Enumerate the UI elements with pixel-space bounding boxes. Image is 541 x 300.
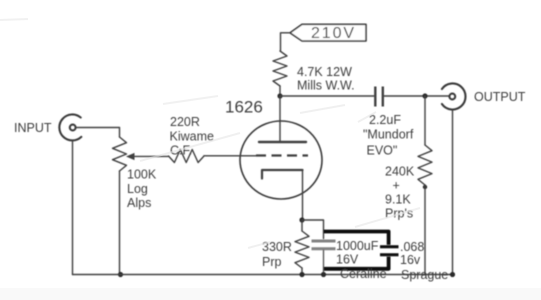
faint compression streaks (decorative): [0, 19, 420, 248]
label OUTPUT: [474, 90, 526, 104]
label 220R Kiwame C.F.: [170, 115, 215, 158]
resistor 4.7K 12W Mills W.W.: [273, 51, 287, 86]
tube U1 1626 envelope: [240, 121, 322, 199]
resistor 330R Prp: [295, 231, 309, 268]
label Ceraline: [340, 267, 387, 281]
svg-text:210V: 210V: [311, 25, 356, 42]
wire pot bottom to ground rail: [119, 171, 121, 275]
svg-text:+: +: [393, 179, 400, 193]
wire input pin to pot top: [76, 128, 120, 138]
wire resistor bottom to plate node: [279, 86, 281, 96]
wire ground rail: [73, 274, 453, 276]
label 1000uF 16V: [336, 239, 379, 267]
svg-text:OUTPUT: OUTPUT: [474, 90, 526, 104]
label 240K + 9.1K Prp's: [385, 165, 415, 221]
svg-text:Log: Log: [127, 182, 148, 196]
pot wiper arrow: [126, 153, 135, 160]
wire cap to output node: [384, 95, 449, 97]
node rail right end: [450, 272, 455, 277]
svg-text:EVO": EVO": [367, 144, 398, 158]
wire cathode junction down to 330R: [301, 220, 303, 231]
svg-text:.068: .068: [400, 240, 424, 254]
node 1000uF ground junction: [321, 272, 326, 277]
node cathode junction: [299, 217, 304, 222]
label 4.7K 12W Mills W.W.: [297, 65, 355, 93]
svg-text:16V: 16V: [336, 253, 359, 267]
node below load resistor: [423, 185, 427, 189]
node 330R ground junction: [299, 272, 304, 277]
tube grid (dashed): [256, 154, 308, 156]
resistor 240K + 9.1K Prp's: [418, 145, 432, 185]
label 100K Log Alps: [127, 168, 157, 211]
tube cathode: [262, 170, 303, 179]
svg-text:"Mundorf: "Mundorf: [363, 128, 414, 142]
label 1626: [225, 98, 263, 117]
label Sprague: [401, 268, 448, 282]
node plate junction: [277, 93, 282, 98]
svg-text:C.F.: C.F.: [170, 144, 192, 158]
capacitor C3 .068 16v Sprague plates: [380, 247, 399, 255]
resistor 220R Kiwame C.F.: [169, 150, 205, 163]
svg-text:INPUT: INPUT: [14, 121, 52, 135]
connector J2 OUTPUT jack: [442, 83, 466, 109]
faint paper tint bottom: [0, 288, 541, 300]
svg-text:100K: 100K: [127, 168, 157, 182]
svg-text:16v: 16v: [400, 253, 421, 267]
wire thick bypass loop (box): [324, 232, 389, 269]
capacitor C1 2.2uF Mundorf EVO: [375, 87, 383, 107]
wire cathode lead down: [302, 170, 304, 220]
label 210V: [311, 25, 356, 42]
label INPUT: [14, 121, 52, 135]
connector J1 INPUT jack: [59, 114, 81, 140]
wire cathode junction to bypass cap: [302, 220, 324, 239]
potentiometer 100K Log Alps: [113, 137, 127, 171]
capacitor C2 1000uF 16V plates: [312, 241, 336, 249]
wire 330R to rail: [301, 268, 303, 275]
svg-text:1626: 1626: [225, 98, 263, 117]
node pot ground junction: [118, 272, 123, 277]
label 330R Prp: [262, 240, 292, 269]
svg-text:240K: 240K: [385, 165, 415, 179]
wire load resistor to rail: [424, 185, 426, 275]
tube plate (anode) bar: [259, 141, 306, 143]
svg-text:1000uF: 1000uF: [336, 239, 379, 253]
wire 1000uF bottom lead to rail: [323, 251, 325, 275]
svg-text:Ceraline: Ceraline: [340, 267, 387, 281]
label 2.2uF "Mundorf EVO": [363, 113, 414, 158]
svg-text:4.7K 12W: 4.7K 12W: [297, 65, 352, 79]
svg-text:9.1K: 9.1K: [385, 193, 411, 207]
node output junction: [422, 93, 427, 98]
wire plate node to coupling cap: [280, 95, 374, 97]
svg-text:2.2uF: 2.2uF: [369, 113, 401, 127]
svg-text:Prp: Prp: [262, 255, 282, 269]
wire output jack ground down: [452, 110, 454, 275]
svg-text:220R: 220R: [170, 115, 200, 129]
wire grid lead: [204, 155, 256, 157]
wire input jack ground down: [72, 141, 74, 275]
wire plate lead down into tube: [279, 96, 281, 142]
wire output node down to load resistor: [424, 96, 426, 145]
svg-text:Mills W.W.: Mills W.W.: [297, 79, 355, 93]
label .068 16v: [400, 240, 424, 267]
svg-text:Alps: Alps: [127, 196, 151, 210]
svg-text:Sprague: Sprague: [401, 268, 448, 282]
node 210V supply flag: [290, 24, 366, 41]
wire from 210V flag to R plate resistor: [281, 33, 291, 51]
wire wiper to 220R: [133, 155, 169, 157]
